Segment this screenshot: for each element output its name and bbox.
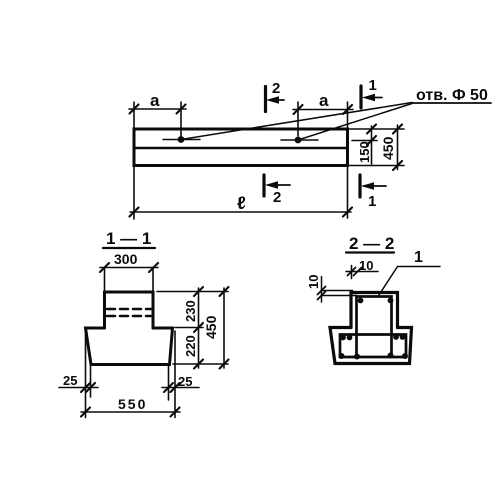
svg-text:2: 2 bbox=[273, 189, 281, 206]
leader from hole 2 bbox=[298, 104, 412, 141]
beam inner horizontal line bbox=[134, 147, 348, 149]
dim line 450 section bbox=[223, 288, 225, 368]
hole label underline bbox=[412, 102, 491, 104]
svg-text:150: 150 bbox=[357, 141, 372, 163]
right side dims: extension lines bbox=[349, 128, 404, 130]
dim 300: ticks bbox=[100, 263, 158, 272]
dim 150: ticks bbox=[367, 125, 376, 146]
dimension a left: dim line bbox=[129, 108, 186, 110]
dim 550: dim line bbox=[81, 411, 180, 413]
ext lines below flange right bbox=[168, 366, 170, 400]
dim 25 right: ticks bbox=[164, 383, 180, 392]
svg-text:отв. Ф 50: отв. Ф 50 bbox=[416, 87, 488, 104]
dim 450 beam: ticks bbox=[393, 125, 402, 171]
section mark 2 bottom: bar bbox=[262, 175, 265, 196]
dim 10 top: vertical ext bbox=[351, 266, 353, 279]
dim 300: extension lines bbox=[104, 268, 106, 291]
svg-text:25: 25 bbox=[178, 374, 192, 389]
dim 10 top: line bbox=[346, 271, 378, 273]
hole 2 bbox=[295, 137, 302, 144]
section 1-1 stem outline bbox=[105, 292, 154, 328]
svg-text:2 — 2: 2 — 2 bbox=[349, 234, 394, 253]
section mark 1 bottom: bar bbox=[358, 175, 361, 197]
svg-text:230: 230 bbox=[183, 300, 198, 322]
rebar dots flange stirrup top-left pair bbox=[340, 335, 346, 341]
dimension a left: extension lines bbox=[133, 102, 135, 128]
section mark 1 top: arrow bbox=[366, 97, 382, 99]
svg-text:450: 450 bbox=[380, 136, 396, 160]
dim 450 beam: dim line bbox=[397, 125, 399, 170]
dimension a right: ticks bbox=[294, 105, 353, 114]
dimension a left: ticks bbox=[130, 105, 186, 114]
dim 150: dim line bbox=[371, 126, 373, 164]
rebar dots flange stirrup top-right pair bbox=[393, 334, 399, 340]
section mark 1 top: bar bbox=[359, 86, 362, 108]
section 1-1 dashed rebar lines bbox=[107, 309, 151, 316]
dim 300: dim line bbox=[100, 267, 158, 269]
section 2-2 title underline bbox=[346, 251, 394, 253]
svg-text:25: 25 bbox=[63, 373, 77, 388]
section 1-1 title underline bbox=[103, 247, 155, 249]
hole 2 center line bbox=[281, 139, 318, 141]
dimension l: extension lines bbox=[133, 167, 135, 219]
section 2-2 stem outline bbox=[351, 293, 398, 328]
section mark 1 bottom: arrow bbox=[364, 185, 386, 187]
svg-text:a: a bbox=[319, 91, 329, 110]
svg-text:10: 10 bbox=[306, 275, 321, 289]
section 2-2 flange outline bbox=[330, 328, 412, 364]
dim 10 top: ticks bbox=[348, 268, 362, 276]
section mark 2 top: arrow bbox=[270, 99, 284, 101]
leader from hole 1 bbox=[181, 103, 412, 140]
dimension a right: extension lines bbox=[297, 102, 299, 136]
hole 1 center line bbox=[163, 139, 200, 141]
svg-text:300: 300 bbox=[114, 251, 138, 267]
rebar dots stem stirrup bbox=[358, 298, 364, 304]
svg-text:450: 450 bbox=[203, 315, 219, 339]
dim line 230/220 bbox=[198, 288, 200, 368]
svg-text:550: 550 bbox=[118, 396, 147, 412]
svg-text:a: a bbox=[150, 91, 160, 110]
section mark 2 top: bar bbox=[264, 87, 267, 112]
section 2-2 flange stirrup bbox=[340, 335, 406, 358]
dim 10 left: ticks bbox=[318, 287, 326, 300]
dim 10 left: ext lines bbox=[322, 291, 358, 296]
hole 1 bbox=[178, 136, 185, 143]
dim 25 left: dim line bbox=[59, 387, 98, 389]
svg-text:1: 1 bbox=[368, 193, 376, 210]
ext lines below flange left bbox=[85, 331, 87, 418]
section 1-1 right dims: extension lines bbox=[157, 291, 228, 293]
ticks 450 section bbox=[220, 287, 229, 369]
dim 25 right: dim line bbox=[162, 387, 199, 389]
svg-text:2: 2 bbox=[272, 80, 280, 97]
dimension l: ticks bbox=[130, 208, 353, 217]
dimension l: dim line bbox=[130, 211, 351, 213]
dimension a right: dim line bbox=[293, 109, 353, 111]
section mark 2 bottom: arrow bbox=[268, 184, 290, 186]
svg-text:1 — 1: 1 — 1 bbox=[106, 229, 151, 248]
svg-text:220: 220 bbox=[183, 335, 198, 357]
section 2-2 stem stirrup bbox=[357, 297, 392, 358]
svg-text:ℓ: ℓ bbox=[237, 193, 246, 213]
svg-text:1: 1 bbox=[369, 77, 377, 94]
section 1-1 flange outline bbox=[86, 328, 173, 365]
svg-text:1: 1 bbox=[414, 249, 423, 266]
ticks 230/220 bbox=[194, 287, 203, 369]
rebar dots flange stirrup bottom bbox=[339, 353, 345, 359]
dim 25 left: ticks bbox=[81, 383, 95, 392]
rebar leader 1: line bbox=[378, 267, 440, 297]
dim 550: ticks bbox=[81, 408, 180, 417]
dim 10 left: vertical line bbox=[321, 277, 323, 303]
beam outline (elevation) bbox=[134, 129, 348, 166]
